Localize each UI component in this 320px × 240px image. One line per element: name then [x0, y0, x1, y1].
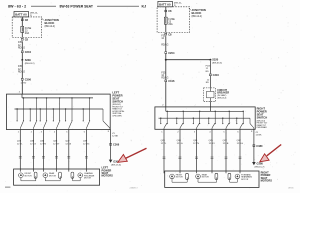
- switch internal second bus (left): [15, 108, 104, 110]
- svg-text:C8: C8: [25, 38, 29, 42]
- rear tilt motor (right): [196, 173, 218, 179]
- right power seat switch label: [257, 107, 268, 120]
- svg-text:C204: C204: [168, 51, 175, 55]
- circuit breaker dashed box: [204, 88, 216, 102]
- svg-text:4: 4: [54, 132, 56, 134]
- track motor (right): [228, 173, 253, 181]
- wire fuse to junction block edge (left): [21, 32, 23, 37]
- svg-text:8W - 63 - 2: 8W - 63 - 2: [8, 4, 26, 8]
- right switch sub-labels: [257, 120, 269, 129]
- svg-text:RD/LG: RD/LG: [18, 72, 25, 74]
- fuse label FUSE 23 20A (right): [168, 18, 175, 26]
- svg-text:RD/LG: RD/LG: [161, 45, 168, 47]
- svg-text:12 YL: 12 YL: [161, 143, 167, 145]
- connector C204 (left): [21, 50, 31, 54]
- svg-text:12: 12: [206, 68, 209, 70]
- connector C316 on branch: [209, 73, 219, 77]
- svg-text:BATT A0: BATT A0: [15, 13, 27, 17]
- svg-text:20A: 20A: [25, 32, 30, 35]
- svg-text:12 LG: 12 LG: [30, 143, 36, 145]
- battery feed box BATT A0 (left): [14, 12, 29, 17]
- svg-text:RD/LG: RD/LG: [18, 47, 25, 49]
- svg-text:(8W-63-2): (8W-63-2): [25, 63, 35, 65]
- six motor feed wires with circuit labels (left): [17, 130, 90, 172]
- svg-text:2: 2: [31, 132, 33, 134]
- switch wiper arms and output pins (left): [20, 122, 89, 130]
- wire fuse to junction block edge (right): [165, 24, 167, 32]
- right power seat motors box: [165, 171, 259, 187]
- switch internal feed bus (left): [22, 94, 93, 98]
- svg-text:8W-63 POWER SEAT: 8W-63 POWER SEAT: [60, 4, 94, 8]
- svg-text:12 LG: 12 LG: [177, 143, 183, 145]
- page header right: KJ: [142, 4, 147, 8]
- wire C306 to switch (left): [21, 81, 23, 95]
- svg-text:Q27: Q27: [65, 141, 70, 143]
- page header title: 8W-63 POWER SEAT: [60, 4, 94, 8]
- svg-text:8: 8: [251, 131, 253, 133]
- front tilt motor (right): [170, 173, 189, 179]
- svg-text:Q23: Q23: [161, 140, 166, 142]
- pin 7 at switch feed (left): [19, 92, 21, 94]
- leader arrow to junction block (right): [189, 8, 191, 10]
- svg-text:12 GY: 12 GY: [53, 143, 60, 145]
- svg-text:Q35: Q35: [193, 140, 198, 142]
- junction block label (left): [45, 18, 59, 28]
- svg-text:MOTOR: MOTOR: [176, 177, 184, 179]
- svg-text:20A: 20A: [168, 23, 173, 26]
- switch contact verticals (right): [160, 111, 244, 125]
- six motor feed wires with circuit labels (right): [161, 129, 244, 173]
- svg-text:(8W-63-3): (8W-63-3): [217, 97, 226, 99]
- connector pin 2 C8 below junction block (left): [21, 38, 28, 42]
- motor interconnect wires (right): [172, 177, 237, 182]
- ground wire from switch (left): [108, 130, 111, 160]
- header rule right: [97, 5, 139, 7]
- ground wire label Z1 12 BK (left): [112, 133, 118, 138]
- svg-text:1: 1: [18, 132, 20, 134]
- svg-text:(8W-63-3): (8W-63-3): [212, 62, 222, 64]
- wire BATT to fuse (left): [21, 17, 23, 27]
- svg-text:C8: C8: [25, 18, 29, 22]
- svg-text:3: 3: [194, 131, 196, 133]
- svg-text:RD: RD: [206, 71, 210, 73]
- svg-text:FWD/REAR: FWD/REAR: [257, 126, 268, 129]
- svg-text:(8W-15-6): (8W-15-6): [111, 165, 121, 167]
- fuse F23 (left): [21, 26, 24, 32]
- wire label F35 12 RD/LG (right mid): [161, 72, 168, 79]
- switch ground pin path (left): [103, 109, 110, 130]
- branch wire labels (right): [206, 65, 212, 73]
- svg-text:Q23: Q23: [17, 141, 22, 143]
- svg-text:12 TN: 12 TN: [40, 143, 46, 145]
- junction block dashed box (right): [157, 7, 190, 33]
- svg-text:12: 12: [18, 69, 21, 71]
- red callout arrow (left): [118, 148, 147, 162]
- page header left: 8W - 63 - 2: [8, 4, 26, 8]
- splice S320 with branch (right): [165, 58, 222, 65]
- svg-text:Q35: Q35: [40, 141, 45, 143]
- svg-text:C316: C316: [213, 73, 220, 77]
- svg-text:12 YL: 12 YL: [17, 143, 23, 145]
- wire C204 to splice (left): [21, 53, 23, 59]
- svg-text:C380: C380: [256, 144, 263, 148]
- svg-text:5: 5: [223, 131, 225, 133]
- label (8W-10-2) right of BATT box (left): [30, 13, 38, 18]
- ground G380 (right): [252, 162, 264, 169]
- svg-text:12 DG: 12 DG: [83, 143, 90, 145]
- wire C204 to splice (right): [165, 54, 167, 59]
- motor interconnect wires (left): [21, 176, 80, 181]
- svg-text:SWITCH: SWITCH: [257, 116, 268, 120]
- svg-text:12 BK: 12 BK: [256, 134, 262, 136]
- svg-text:1: 1: [161, 131, 163, 133]
- svg-text:12 RD: 12 RD: [21, 83, 27, 85]
- svg-text:C8: C8: [168, 32, 172, 36]
- switch contact verticals (left): [16, 97, 90, 121]
- svg-text:C204: C204: [25, 50, 32, 54]
- watermark bottom right: [288, 188, 294, 190]
- svg-text:MOTOR: MOTOR: [25, 175, 33, 177]
- svg-text:MOTORS: MOTORS: [261, 179, 273, 183]
- watermark bottom left: [5, 187, 10, 188]
- svg-text:Q37: Q37: [83, 141, 88, 143]
- circuit breaker symbol: [206, 88, 214, 102]
- svg-text:BLOCK: BLOCK: [192, 11, 202, 15]
- svg-text:6: 6: [84, 132, 86, 134]
- svg-text:(8W-15-7): (8W-15-7): [255, 167, 265, 169]
- svg-text:24B087J: 24B087J: [130, 188, 138, 190]
- svg-text:12 TN: 12 TN: [193, 143, 199, 145]
- switch internal second bus (right): [159, 117, 251, 119]
- wire label F35 12 RD/LG (left upper): [18, 42, 25, 49]
- ground wire label Z1 12 BK (right): [256, 132, 262, 137]
- svg-text:C316: C316: [168, 79, 175, 83]
- wire label F35 12 RD/LG (right upper): [161, 36, 168, 47]
- svg-text:MOTOR: MOTOR: [202, 177, 210, 179]
- svg-text:12 BK: 12 BK: [112, 136, 118, 138]
- svg-text:2: 2: [177, 131, 179, 133]
- ground wire from switch (right): [251, 129, 254, 162]
- splice S309 (left): [21, 58, 34, 65]
- svg-text:MOTORS: MOTORS: [102, 174, 114, 178]
- svg-text:12 DG: 12 DG: [237, 143, 244, 145]
- right power seat switch box: [155, 107, 255, 129]
- svg-text:MOTOR: MOTOR: [84, 178, 92, 180]
- svg-text:4: 4: [209, 131, 211, 133]
- svg-text:6: 6: [237, 131, 239, 133]
- ground G301 (left): [109, 160, 121, 167]
- svg-text:(8W-12-2): (8W-12-2): [192, 16, 203, 18]
- connector C204 (right): [165, 51, 175, 55]
- junction block label (right): [192, 8, 206, 18]
- svg-text:3: 3: [41, 132, 43, 134]
- fuse F23 (right): [164, 17, 167, 24]
- wire circuit breaker to switch: [209, 102, 211, 107]
- svg-text:12 GY: 12 GY: [209, 143, 216, 145]
- svg-text:BLOCK: BLOCK: [45, 21, 55, 25]
- svg-text:12 LB: 12 LB: [65, 143, 71, 145]
- left power seat switch box: [7, 94, 111, 130]
- svg-text:S320: S320: [212, 58, 219, 62]
- svg-text:8: 8: [108, 131, 110, 133]
- svg-text:SWITCH: SWITCH: [112, 99, 123, 103]
- svg-text:(8W-12-2): (8W-12-2): [45, 26, 56, 28]
- svg-text:S309: S309: [25, 58, 32, 62]
- svg-text:MOTOR: MOTOR: [241, 179, 249, 181]
- switch internal feed bus (right): [166, 107, 244, 111]
- connector pin 1 C8 (right): [165, 9, 172, 13]
- wire label F35 12 RD/LG (left mid): [18, 66, 25, 73]
- svg-text:2: 2: [19, 92, 21, 94]
- switch wiper arms and output pins (right): [164, 123, 243, 129]
- label (8W-10-2) right of BATT box (right): [174, 3, 182, 8]
- svg-text:12: 12: [207, 79, 210, 81]
- left power seat motors box: [14, 169, 100, 185]
- svg-text:KJ: KJ: [142, 4, 147, 8]
- svg-text:12: 12: [161, 38, 164, 40]
- right power seat motors label: [261, 170, 273, 182]
- connector C380 on ground wire (right): [253, 144, 263, 148]
- connector pin 2 C8 below junction block (right): [165, 32, 172, 36]
- rear tilt motor (left): [43, 172, 61, 178]
- svg-text:J8946: J8946: [288, 188, 294, 190]
- svg-text:Q37: Q37: [237, 140, 242, 142]
- track motor (left): [71, 172, 95, 180]
- svg-text:Q25: Q25: [209, 140, 214, 142]
- svg-text:2: 2: [162, 105, 164, 107]
- header rule left: [31, 5, 56, 7]
- connector pin 1 C8 (left): [21, 18, 28, 22]
- watermark bottom center: [130, 188, 138, 190]
- scan speckle background texture: [4, 2, 298, 191]
- svg-text:Q25: Q25: [53, 141, 58, 143]
- svg-text:Q27: Q27: [223, 140, 228, 142]
- wire C316 to switch (right): [162, 82, 166, 107]
- svg-text:5: 5: [66, 132, 68, 134]
- wire BATT to fuse (right): [165, 7, 167, 17]
- fuse label FUSE 23 20A (left): [25, 27, 32, 35]
- wire splice to C306 (left): [21, 61, 23, 78]
- wire splice to C316 (right): [165, 60, 167, 80]
- junction block dashed box (left): [12, 17, 42, 38]
- svg-text:C8: C8: [168, 9, 172, 13]
- red callout arrow (right): [260, 145, 281, 162]
- svg-text:RD: RD: [206, 82, 210, 84]
- svg-text:12 LB: 12 LB: [223, 143, 229, 145]
- switch ground pin path (right): [250, 118, 254, 129]
- wire junction block to C204 (left): [21, 41, 23, 50]
- left power seat motors label: [102, 166, 114, 178]
- circuit breaker label: [217, 89, 229, 100]
- svg-text:Q33: Q33: [177, 140, 182, 142]
- svg-text:BATT A0: BATT A0: [159, 3, 171, 7]
- battery feed box BATT A0 (right): [158, 1, 173, 6]
- wire junction block to C204 (right): [165, 36, 167, 51]
- svg-text:UP/DOWN: UP/DOWN: [112, 115, 122, 117]
- front tilt motor (left): [19, 172, 37, 178]
- connector C306 on ground wire (left): [109, 143, 119, 147]
- svg-text:C306: C306: [25, 78, 32, 82]
- wire into circuit breaker: [206, 61, 211, 88]
- svg-text:C306: C306: [113, 143, 120, 147]
- leader arrow to junction block (left): [42, 18, 44, 20]
- connector C316 (right): [165, 79, 175, 83]
- left power seat switch label: [112, 91, 123, 104]
- left switch sub-labels: [112, 104, 124, 117]
- svg-text:MOTOR: MOTOR: [49, 175, 57, 177]
- connector C306 (left): [21, 78, 32, 85]
- svg-text:Q33: Q33: [30, 141, 35, 143]
